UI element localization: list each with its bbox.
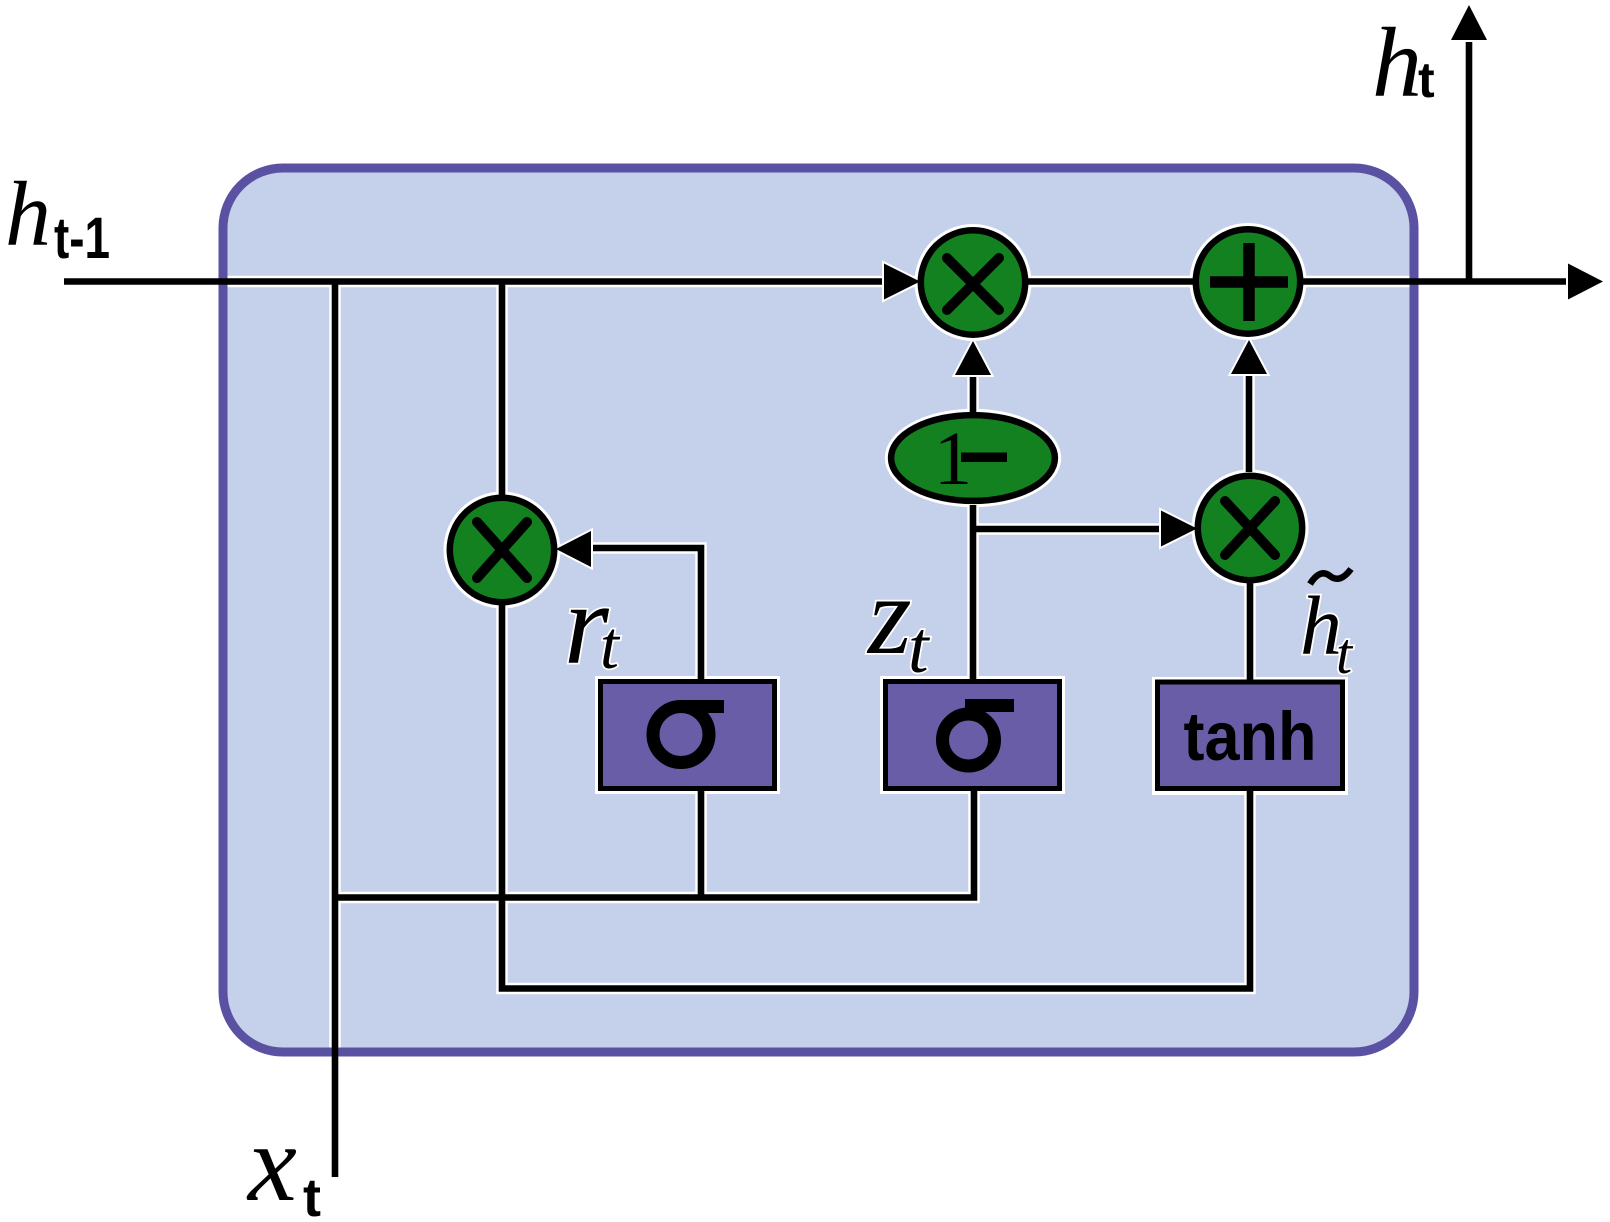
- arrow into right multiplier from left: [1161, 511, 1197, 547]
- label h(t) top right: [1372, 7, 1435, 118]
- halo sigma box 2: [880, 676, 1065, 794]
- arrow h(t) output up: [1451, 5, 1487, 40]
- label h-tilde(t): [1300, 569, 1354, 686]
- svg-text:t: t: [908, 607, 931, 689]
- label r(t): [564, 561, 621, 688]
- svg-text:tanh: tanh: [1184, 698, 1317, 775]
- halo adder: [1190, 223, 1307, 340]
- halo multiplier left: [444, 492, 561, 609]
- wire: branch down to left multiplier: [499, 282, 506, 498]
- arrow main line right end: [1568, 264, 1603, 300]
- wire: feed up into sigma box 1: [698, 791, 705, 898]
- svg-text:h: h: [1372, 7, 1422, 118]
- wire: z(t) branch to right multiplier: [973, 526, 1162, 533]
- svg-text:t: t: [303, 1168, 321, 1222]
- label z(t): [866, 554, 931, 689]
- adder: [1196, 229, 1300, 333]
- label x(t) bottom: [246, 1102, 321, 1222]
- svg-text:t-1: t-1: [54, 206, 110, 271]
- svg-text:h: h: [5, 163, 51, 265]
- wire: right multiplier up to adder: [1246, 368, 1253, 472]
- wire: x(t) horizontal feed to gates: [335, 788, 974, 898]
- arrow into top multiplier from below: [955, 341, 991, 375]
- wire: r(t) from sigma 1 to left multiplier: [592, 548, 701, 679]
- halo multiplier right: [1192, 470, 1309, 587]
- halo tanh box: [1152, 677, 1348, 795]
- sigma box 1 (reset gate): [601, 682, 775, 789]
- wire: tanh up to right multiplier: [1247, 581, 1254, 680]
- arrow into top multiplier from left: [884, 264, 920, 300]
- arrowheads: [556, 5, 1603, 567]
- 1-minus ellipse: [891, 415, 1055, 501]
- multiplier right: [1198, 476, 1302, 580]
- halo sigma box 1: [595, 676, 780, 794]
- white halos under components: [444, 223, 1349, 795]
- wire: x(t) vertical line: [332, 282, 339, 1178]
- halo 1-minus ellipse: [885, 409, 1061, 507]
- multiplier left: [450, 498, 554, 602]
- svg-text:x: x: [246, 1102, 297, 1222]
- wire: h(t-1) main horizontal line: [64, 278, 1575, 285]
- arrow into left multiplier from right: [556, 531, 591, 567]
- GRU cell body (rounded box): [223, 168, 1414, 1052]
- wire: h(t) output vertical: [1466, 38, 1473, 282]
- label h(t-1): [5, 163, 110, 271]
- halo multiplier top: [915, 224, 1032, 341]
- wire white casings (clipped to cell interior): [64, 282, 1575, 1178]
- arrow into adder from below: [1231, 340, 1267, 374]
- multiplier top (elementwise product): [921, 230, 1025, 334]
- svg-text:t: t: [600, 607, 621, 683]
- sigma box 2 (update gate): [886, 682, 1060, 789]
- tanh box: [1158, 682, 1343, 789]
- svg-text:t: t: [1418, 52, 1435, 108]
- wire: left multiplier output to tanh input: [502, 603, 1250, 989]
- wire: z(t) from sigma 2 up to 1-minus: [970, 505, 977, 680]
- wire: 1-minus up to top multiplier: [970, 370, 977, 412]
- svg-text:z: z: [866, 554, 912, 678]
- svg-text:t: t: [1336, 621, 1354, 686]
